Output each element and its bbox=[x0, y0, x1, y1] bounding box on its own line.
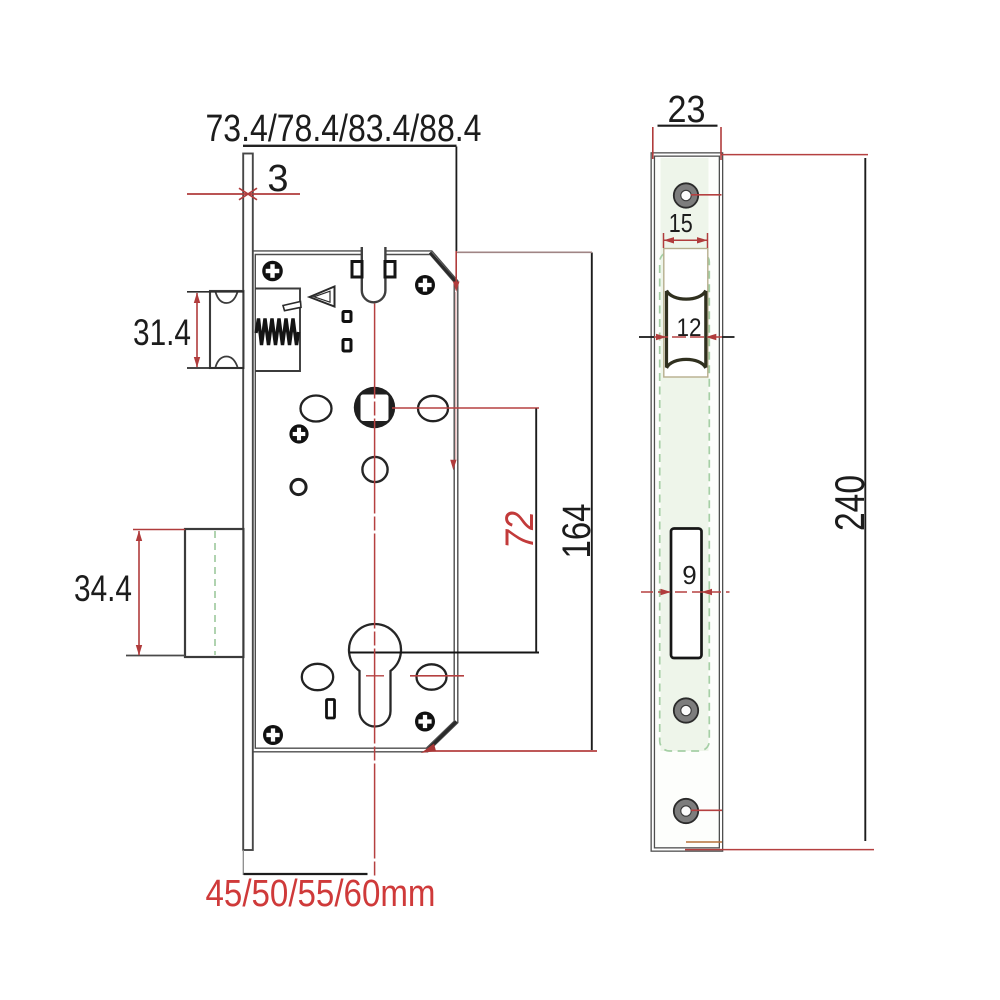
extension line below strip bbox=[242, 850, 244, 875]
red pointer from top hole bbox=[691, 194, 722, 196]
latch bottom notch bbox=[216, 357, 238, 368]
phillips screw bottom-left of body bbox=[263, 725, 283, 745]
dim 164 (rotated) bbox=[555, 504, 599, 559]
svg-text:73.4/78.4/83.4/88.4: 73.4/78.4/83.4/88.4 bbox=[206, 108, 482, 150]
euro cylinder hole bbox=[349, 624, 401, 726]
top dim right extension bbox=[455, 147, 457, 252]
red tie plate top to 240 bbox=[722, 154, 869, 156]
small square hole 1 bbox=[343, 312, 351, 322]
oval hole left of euro bbox=[302, 664, 333, 690]
dim line 3 (red with crossing arrows) bbox=[187, 188, 300, 200]
red tie line body bottom bbox=[429, 750, 597, 752]
red centerline horizontal euro row bbox=[410, 675, 464, 677]
deadbolt (front view) bbox=[185, 529, 243, 657]
svg-text:15: 15 bbox=[669, 208, 693, 238]
wedge pointer bbox=[310, 287, 335, 307]
faceplate strip (front view edge-on) bbox=[243, 154, 253, 851]
svg-text:34.4: 34.4 bbox=[74, 568, 132, 609]
dim line 72 vertical bbox=[535, 409, 537, 653]
deadbolt hidden line bbox=[214, 531, 216, 655]
chamfer accent top-right bbox=[430, 253, 457, 283]
dim line 9 (red) bbox=[641, 591, 730, 593]
spring bbox=[256, 319, 299, 346]
small ring hole bbox=[291, 479, 306, 494]
thin blade bbox=[283, 302, 301, 311]
lock body (front view, double-line outline) bbox=[254, 253, 457, 750]
red pointer from bottom hole bbox=[691, 809, 722, 811]
plate screw hole top bbox=[674, 183, 698, 207]
latch cutout slot bbox=[664, 249, 708, 378]
red centerline vertical through lock bbox=[374, 304, 376, 877]
chamfer accent bottom-right bbox=[427, 722, 457, 751]
red tie plate bottom to 240 bbox=[685, 849, 874, 851]
dim 72 (red, rotated) bbox=[498, 511, 542, 549]
U-slot right ear bbox=[385, 262, 395, 278]
plate screw hole middle bbox=[674, 698, 698, 722]
plate inner tint band bbox=[661, 158, 709, 751]
red extension along body right edge bbox=[455, 251, 457, 287]
oval hole right of follower bbox=[418, 396, 448, 421]
latch bolt (protruding, front view) bbox=[210, 291, 243, 368]
dim line 164 vertical bbox=[591, 253, 593, 751]
dim line top bbox=[243, 145, 457, 147]
chord line through euro circle bbox=[350, 652, 540, 654]
plate screw hole bottom bbox=[674, 799, 698, 823]
oval hole left of follower bbox=[301, 396, 332, 422]
dim line 240 bbox=[864, 158, 866, 841]
oval hole right of euro bbox=[417, 664, 447, 689]
faceplate plate (double-line outline) bbox=[653, 155, 721, 850]
phillips screw mid-left bbox=[289, 424, 308, 443]
latch roller (plan view) bbox=[667, 291, 706, 369]
latch housing box inside body bbox=[255, 289, 300, 372]
svg-text:9: 9 bbox=[682, 560, 696, 590]
green dashed screw-plate outline bbox=[660, 252, 710, 751]
svg-text:45/50/55/60mm: 45/50/55/60mm bbox=[206, 873, 436, 915]
small square hole 2 bbox=[343, 340, 351, 352]
phillips screw top-right bbox=[415, 275, 435, 295]
svg-text:31.4: 31.4 bbox=[133, 312, 191, 353]
follower spring U-slot at body top bbox=[361, 246, 386, 302]
short orange tick above plate bottom bbox=[686, 841, 722, 843]
small slot below left oval bbox=[327, 700, 335, 719]
phillips screw top-left bbox=[262, 261, 283, 282]
circle below follower bbox=[362, 457, 387, 482]
phillips screw lower-right of body bbox=[415, 712, 435, 732]
latch top notch bbox=[216, 292, 238, 303]
tie line body top to 164 bbox=[457, 251, 592, 253]
follower hub with square spindle hole bbox=[354, 387, 395, 428]
backset dim line bbox=[244, 873, 368, 875]
deadbolt cutout bbox=[671, 529, 702, 659]
U-slot left ear bbox=[352, 262, 362, 278]
roller centerline bbox=[639, 336, 654, 338]
red centerline horizontal follower row bbox=[392, 407, 539, 409]
dim 240 (rotated) bbox=[826, 475, 873, 531]
